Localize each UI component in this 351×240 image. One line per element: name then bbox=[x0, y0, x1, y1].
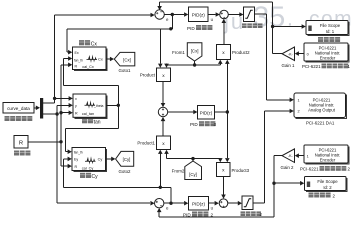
sum junction sum4 (y loop) bbox=[155, 199, 164, 208]
product block Product3 bbox=[217, 163, 231, 177]
wire sum2 to saturation 1 bbox=[228, 14, 239, 16]
wire Product3 to sum5 bbox=[223, 177, 225, 195]
sum junction sum5 (y loop feedforward add) bbox=[219, 199, 228, 208]
wire Cy output to Goto2 bbox=[106, 158, 112, 160]
svg-text:PID(z): PID(z) bbox=[200, 110, 213, 115]
wire e to PID controller 1 bbox=[164, 14, 184, 16]
node Cx branch bbox=[193, 63, 196, 66]
product block Product2 bbox=[217, 45, 231, 60]
wire Cx to Product2 input 1 bbox=[195, 64, 221, 65]
wire e to cal_Cx Ex port bbox=[67, 15, 173, 53]
svg-text:PCI-6221: PCI-6221 bbox=[302, 64, 321, 69]
svg-text:Cx: Cx bbox=[91, 41, 98, 47]
svg-text:From1: From1 bbox=[172, 50, 185, 55]
wire encoder 2 to gain 2 bbox=[299, 155, 304, 157]
wire u to sum5 bbox=[209, 202, 215, 204]
from tag From2 [Cy] bbox=[185, 161, 202, 180]
sink block File Scope Id 2 bbox=[306, 178, 347, 192]
sum junction sum3 (coupling) bbox=[158, 107, 167, 116]
icon saturation 1 bbox=[245, 10, 252, 18]
wire tan_theta output bbox=[106, 104, 118, 106]
wire y reference to sum4 bbox=[57, 114, 150, 203]
svg-text:y: y bbox=[75, 104, 77, 108]
gain block Gain 2 bbox=[282, 149, 295, 163]
wire demux x output to cal_tan x port bbox=[43, 98, 69, 103]
node feedback branch to file scope 2 bbox=[272, 182, 275, 185]
icon chirp cal_Cx bbox=[87, 55, 98, 64]
svg-text:3: 3 bbox=[214, 122, 217, 127]
node PID3 branch bbox=[226, 110, 229, 113]
wire R to cal_Cx R port bbox=[61, 65, 68, 113]
node x reference branch bbox=[53, 97, 56, 100]
sink block File Scope Id 1 bbox=[308, 22, 350, 36]
label 计算Cy bbox=[80, 173, 91, 178]
wire R output bbox=[28, 141, 61, 143]
saturation block 1 bbox=[244, 7, 255, 22]
node tan_theta branch bbox=[117, 104, 120, 107]
wire ey to cal_Cy Ey port bbox=[64, 159, 172, 203]
svg-text:cal_tan: cal_tan bbox=[82, 112, 94, 116]
svg-text:[Cx]: [Cx] bbox=[123, 57, 131, 62]
label 圆半径 (circle radius) bbox=[14, 151, 30, 156]
watermark text bbox=[223, 2, 351, 35]
wire PID3 to Product3 input 2 bbox=[226, 112, 228, 158]
svg-text:Product1: Product1 bbox=[137, 140, 155, 145]
goto tag Goto1 [Cx] bbox=[114, 52, 135, 66]
wire Cy to Product1 input 2 bbox=[166, 154, 168, 159]
svg-text:Encoder: Encoder bbox=[320, 55, 336, 60]
svg-text:File Scope: File Scope bbox=[317, 179, 338, 184]
svg-text:PID(z): PID(z) bbox=[192, 202, 205, 207]
wire ey to PID controller 2 bbox=[164, 202, 184, 204]
node Cy branch bbox=[191, 157, 194, 160]
wire Product2 to sum2 bbox=[223, 23, 225, 45]
label 计算tan bbox=[82, 118, 93, 123]
node feedback branch to file scope 1 bbox=[271, 25, 274, 28]
saturation block 2 bbox=[242, 196, 253, 210]
wire gain1 output bbox=[273, 53, 282, 55]
svg-text:-K-: -K- bbox=[288, 154, 294, 158]
PID controller 1 block bbox=[189, 7, 209, 22]
wire PID3 output bbox=[215, 111, 228, 113]
svg-text:R: R bbox=[19, 140, 23, 146]
source block curve_data bbox=[3, 103, 34, 114]
wire Product1 to sum3 bbox=[162, 121, 164, 136]
svg-text:Analog Output: Analog Output bbox=[308, 108, 336, 113]
node R branch 2 bbox=[59, 111, 62, 114]
svg-text:fan_th: fan_th bbox=[74, 150, 83, 154]
svg-text:-K-: -K- bbox=[288, 52, 294, 56]
wire Cy left bbox=[167, 158, 194, 160]
sink block PCI-6221 analog output bbox=[296, 95, 347, 119]
wire ey to Product1 input 1 bbox=[159, 154, 161, 188]
wire tan_theta to cal_Cx fan_theta port bbox=[64, 59, 119, 106]
wire gain1 up bbox=[272, 2, 274, 53]
wire sum5 to saturation 2 bbox=[228, 202, 238, 204]
svg-text:1: 1 bbox=[307, 154, 309, 158]
wire encoder 1 to gain 1 bbox=[299, 53, 304, 55]
wire x reference to sum1 bbox=[55, 15, 151, 98]
label 曲线点生成 (curve point generation) bbox=[5, 116, 33, 121]
subsystem cal_tan bbox=[75, 96, 108, 119]
svg-text:Encoder: Encoder bbox=[320, 157, 336, 162]
svg-text:x: x bbox=[75, 97, 77, 101]
svg-text:PID: PID bbox=[187, 26, 195, 31]
subsystem cal_Cy bbox=[74, 149, 107, 172]
svg-text:Cx: Cx bbox=[98, 57, 103, 61]
node ey branch (y error) bbox=[169, 202, 172, 205]
node ey branch to Product1 bbox=[159, 186, 162, 189]
sum junction sum1 (x loop) bbox=[155, 10, 164, 19]
svg-text:Cy: Cy bbox=[92, 174, 99, 180]
svg-text:cal_Cx: cal_Cx bbox=[82, 65, 94, 69]
wire to file scope 2 bbox=[274, 182, 300, 184]
wire feedback into sum4 bbox=[158, 212, 160, 217]
svg-text:[Cy]: [Cy] bbox=[189, 172, 197, 177]
PID controller 2 block bbox=[189, 197, 209, 211]
gain block Gain 1 bbox=[282, 47, 295, 61]
wire e to Product input 1 bbox=[159, 29, 161, 64]
svg-text:Ex: Ex bbox=[75, 51, 79, 55]
svg-text:Gain 2: Gain 2 bbox=[281, 165, 294, 170]
wire bottom feedback bbox=[159, 216, 274, 218]
wire feedback into sum1 bbox=[159, 2, 161, 6]
svg-text:Goto1: Goto1 bbox=[119, 68, 132, 73]
svg-text:File Scope: File Scope bbox=[320, 23, 341, 28]
svg-text:fan_th: fan_th bbox=[74, 58, 83, 62]
wire Cx to Product input 2 bbox=[167, 63, 195, 65]
product block Product1 bbox=[157, 136, 171, 150]
svg-text:Gain 1: Gain 1 bbox=[282, 63, 295, 68]
svg-text:Id: 2: Id: 2 bbox=[323, 185, 332, 190]
svg-text:Product3: Product3 bbox=[232, 168, 250, 173]
label 饱和环节 2 bbox=[241, 211, 262, 216]
wire PID3 to Product2 input 2 bbox=[226, 64, 228, 112]
demux bbox=[40, 98, 43, 119]
svg-text:1: 1 bbox=[298, 99, 300, 103]
label 饱和环节 (saturation) bbox=[242, 23, 263, 28]
wire tan_theta to cal_Cy fan_theta port bbox=[66, 105, 119, 151]
svg-text:PCI-6221 DA1: PCI-6221 DA1 bbox=[306, 121, 335, 126]
svg-text:_theta: _theta bbox=[93, 104, 104, 108]
svg-text:R: R bbox=[75, 65, 78, 69]
wire curve_data to demux bbox=[34, 107, 36, 109]
svg-text:R: R bbox=[75, 165, 78, 169]
node e branch (x error) bbox=[171, 13, 174, 16]
wire sum3 to PID controller 3 bbox=[168, 111, 194, 113]
constant block R bbox=[14, 136, 28, 149]
sum junction sum2 (x loop feedforward add) bbox=[220, 10, 229, 19]
wire R to cal_Cy R port bbox=[61, 142, 68, 166]
wire gain2 output bbox=[274, 155, 282, 157]
svg-text:Goto2: Goto2 bbox=[119, 169, 132, 174]
svg-text:Ey: Ey bbox=[74, 158, 78, 162]
svg-text:Cy: Cy bbox=[98, 158, 103, 162]
svg-text:[Cx]: [Cx] bbox=[191, 48, 199, 53]
wire demux y output to cal_tan y port bbox=[43, 105, 69, 114]
wire From2 output bbox=[192, 159, 194, 161]
icon chirp cal_Cy bbox=[85, 156, 96, 165]
wire u to sum2 bbox=[208, 14, 216, 16]
wire saturation 1 to analog output port 1 bbox=[255, 14, 290, 100]
node e branch to Product bbox=[169, 27, 172, 30]
svg-text:35: 35 bbox=[253, 2, 285, 34]
svg-text:curve_data: curve_data bbox=[7, 106, 30, 111]
svg-text:.: . bbox=[287, 8, 293, 31]
PID controller 3 block bbox=[198, 106, 215, 120]
product block Product bbox=[157, 68, 171, 82]
source block PCI-6221 encoder 2 bbox=[306, 147, 350, 165]
goto tag Goto2 [Cy] bbox=[116, 151, 134, 166]
svg-text:PID(z): PID(z) bbox=[192, 12, 205, 17]
svg-text:From2: From2 bbox=[172, 168, 185, 173]
subsystem cal_Cx bbox=[74, 49, 107, 71]
wire gain2 down bbox=[273, 156, 275, 217]
wire Product to sum3 bbox=[162, 82, 164, 104]
svg-text:PCI-6221: PCI-6221 bbox=[300, 167, 319, 172]
icon saturation 2 bbox=[244, 199, 251, 207]
svg-text:Product: Product bbox=[140, 72, 156, 77]
label 文件记录2 bbox=[309, 193, 331, 198]
svg-text:tan: tan bbox=[94, 119, 101, 125]
source block PCI-6221 encoder 1 bbox=[306, 45, 350, 63]
label 文件记录 (file record) bbox=[318, 37, 340, 42]
icon chirp cal_tan bbox=[85, 100, 96, 109]
wire Cy to Product3 input 1 bbox=[193, 158, 220, 160]
wire saturation 2 to analog output port 2 bbox=[253, 111, 290, 203]
svg-text:PID: PID bbox=[190, 122, 198, 127]
svg-text:R: R bbox=[75, 111, 78, 115]
svg-text:cal_Cy: cal_Cy bbox=[82, 166, 94, 170]
svg-text:Id: 1: Id: 1 bbox=[326, 29, 335, 34]
svg-text:0: 0 bbox=[307, 52, 309, 56]
wire Cx output to Goto1 bbox=[106, 58, 110, 60]
node R branch bbox=[59, 140, 62, 143]
wire top feedback bbox=[160, 1, 273, 3]
node y reference branch bbox=[55, 112, 58, 115]
wire From1 output bbox=[194, 61, 196, 65]
from tag From1 [Cx] bbox=[187, 43, 202, 61]
label 计算Cx (compute Cx) bbox=[79, 40, 90, 45]
svg-text:[Cy]: [Cy] bbox=[123, 157, 131, 162]
wire to file scope 1 bbox=[273, 26, 302, 28]
wire R to cal_tan R port bbox=[61, 113, 69, 142]
svg-text:Product2: Product2 bbox=[232, 50, 250, 55]
svg-text:2: 2 bbox=[298, 110, 300, 114]
